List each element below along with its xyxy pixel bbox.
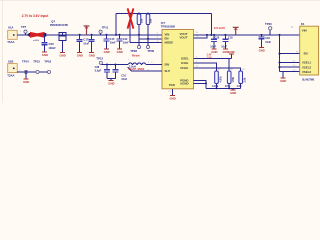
svg-text:10k: 10k xyxy=(150,18,153,23)
svg-text:C18: C18 xyxy=(215,37,220,40)
node cap C20 junction xyxy=(44,34,46,36)
connector X1A xyxy=(8,30,18,39)
wire input rail xyxy=(17,34,162,36)
wire ground rail xyxy=(17,71,49,73)
ground xyxy=(117,48,122,50)
svg-text:TP7: TP7 xyxy=(21,25,27,29)
wire L1 to SW pin xyxy=(146,64,162,66)
wire resistor bottom rail xyxy=(206,87,241,89)
svg-text:AGND: AGND xyxy=(180,81,189,85)
svg-text:VOUT: VOUT xyxy=(180,35,188,39)
svg-text:GND: GND xyxy=(280,79,286,83)
wire riser to top rail xyxy=(115,14,117,35)
svg-text:C16: C16 xyxy=(121,75,126,78)
svg-text:GND: GND xyxy=(170,96,176,100)
resistor R12 xyxy=(239,71,243,84)
svg-text:100nF: 100nF xyxy=(49,47,57,50)
wire join to ground xyxy=(107,79,115,81)
node junction VOUT xyxy=(206,34,208,36)
svg-text:VSEL1: VSEL1 xyxy=(302,61,312,65)
svg-text:TP18: TP18 xyxy=(44,59,51,63)
test point TP08 xyxy=(137,45,140,48)
capacitor C16 xyxy=(114,65,116,70)
svg-text:GND: GND xyxy=(117,50,123,54)
node junction C16 xyxy=(114,63,116,65)
capacitor C20 xyxy=(44,35,46,43)
svg-text:4.87k: 4.87k xyxy=(219,76,222,83)
node junction C38 xyxy=(106,63,108,65)
svg-text:10nF: 10nF xyxy=(121,78,127,81)
ground xyxy=(24,78,29,80)
svg-text:Q?: Q? xyxy=(51,20,55,24)
resistor R11 (not fitted, crossed out) xyxy=(129,14,131,43)
svg-text:T3AA: T3AA xyxy=(7,40,14,44)
wire OSEL net xyxy=(194,57,232,59)
svg-text:VIN: VIN xyxy=(302,29,307,33)
ground xyxy=(77,52,82,54)
wire EN net xyxy=(139,38,162,40)
svg-text:GND: GND xyxy=(42,53,48,57)
svg-text:ICHG: ICHG xyxy=(181,61,189,65)
svg-text:C17: C17 xyxy=(83,38,89,42)
sheet border lines xyxy=(0,0,320,2)
capacitor C23 xyxy=(261,35,263,37)
node junction to ground xyxy=(25,71,27,73)
svg-text:GND: GND xyxy=(223,50,229,54)
wire EN net xyxy=(280,53,300,55)
wire PAD to ground xyxy=(171,89,173,95)
ground (above wire) xyxy=(230,54,232,59)
ground xyxy=(42,51,47,53)
node R12 to VIN rail xyxy=(138,34,140,36)
svg-text:X1A: X1A xyxy=(8,25,13,29)
wire VSEL2 net xyxy=(280,66,300,68)
wire AGND net xyxy=(194,82,207,84)
wire gate of Q1 xyxy=(61,41,63,53)
ground xyxy=(223,48,228,50)
svg-text:SLP: SLP xyxy=(165,69,171,73)
wire SLP net with flag xyxy=(131,70,162,72)
connector X1B xyxy=(8,64,18,73)
node junction C23 xyxy=(260,34,262,36)
test point TP06 xyxy=(146,45,149,48)
node junction bus xyxy=(278,34,280,36)
resistor R13 xyxy=(146,14,150,25)
ground xyxy=(212,48,217,50)
wire top rail xyxy=(116,13,211,15)
node riser junction xyxy=(115,34,117,36)
node top rail corner xyxy=(210,14,212,35)
svg-text:TP14: TP14 xyxy=(22,59,29,63)
svg-text:NCAP_MIAS: NCAP_MIAS xyxy=(129,67,145,71)
svg-text:10nF: 10nF xyxy=(110,42,116,45)
node junction C19 xyxy=(224,34,226,36)
capacitor C21 xyxy=(91,35,93,40)
resistor R11 xyxy=(228,58,230,71)
svg-text:10nF: 10nF xyxy=(123,42,129,45)
svg-text:10nF: 10nF xyxy=(210,46,216,49)
ground xyxy=(89,52,94,54)
svg-text:EN: EN xyxy=(304,51,308,55)
svg-text:SW: SW xyxy=(165,63,170,67)
ground xyxy=(60,52,65,54)
svg-text:10nF: 10nF xyxy=(265,41,271,44)
capacitor C19 xyxy=(224,35,226,39)
svg-text:TP20: TP20 xyxy=(265,22,272,26)
svg-text:C23: C23 xyxy=(265,37,270,40)
svg-text:OSEL: OSEL xyxy=(181,57,189,61)
wire SW node xyxy=(102,64,129,66)
wire VCHG net xyxy=(194,68,241,71)
svg-text:TP06: TP06 xyxy=(147,49,154,53)
ground xyxy=(104,48,109,50)
svg-text:TP13: TP13 xyxy=(96,56,103,60)
node junction C18 xyxy=(213,34,215,36)
wire PGND net xyxy=(194,80,207,88)
node junctions on ground rail xyxy=(215,87,217,89)
svg-text:GND: GND xyxy=(89,54,95,58)
svg-text:VCHG: VCHG xyxy=(180,66,189,70)
svg-text:GND: GND xyxy=(259,49,265,53)
capacitor C15 xyxy=(106,35,108,39)
node junction AGND/PGND xyxy=(205,82,207,84)
svg-text:10nF: 10nF xyxy=(83,42,89,45)
svg-text:GND: GND xyxy=(228,50,234,54)
svg-text:C19: C19 xyxy=(228,37,233,40)
svg-text:GND: GND xyxy=(104,50,110,54)
svg-text:MODE: MODE xyxy=(165,40,174,44)
svg-text:10k: 10k xyxy=(141,18,144,23)
svg-text:2.7V to 3.6V input: 2.7V to 3.6V input xyxy=(22,14,50,18)
capacitor C22 xyxy=(119,35,121,39)
svg-text:3.0-3.6V: 3.0-3.6V xyxy=(214,26,225,30)
svg-text:VSEL3: VSEL3 xyxy=(302,70,312,74)
ground xyxy=(259,47,264,49)
svg-text:GND: GND xyxy=(108,82,114,86)
svg-text:SLV927M2: SLV927M2 xyxy=(302,78,315,81)
svg-text:C20: C20 xyxy=(49,42,55,46)
resistor R12 xyxy=(137,14,141,25)
fuse F1 xyxy=(29,33,31,37)
svg-text:GND: GND xyxy=(230,91,236,95)
svg-text:GND: GND xyxy=(77,54,83,58)
svg-text:PAD: PAD xyxy=(169,83,175,87)
svg-text:4.87k: 4.87k xyxy=(212,85,219,88)
node junction C17 xyxy=(79,34,81,36)
svg-text:GND: GND xyxy=(23,80,29,84)
node junction C15 xyxy=(105,34,107,36)
svg-text:2.0k: 2.0k xyxy=(237,85,242,88)
svg-text:TPS6105M: TPS6105M xyxy=(161,25,176,29)
capacitor C18 xyxy=(213,35,215,39)
test point TP brown xyxy=(84,26,90,35)
ground xyxy=(232,88,234,89)
svg-text:10uF: 10uF xyxy=(221,46,227,49)
wire VSEL1 net xyxy=(280,62,300,64)
wire enable bus xyxy=(279,35,281,72)
svg-text:X1B: X1B xyxy=(8,59,13,63)
svg-text:C38: C38 xyxy=(95,66,100,69)
node junction C22 xyxy=(118,34,120,36)
svg-text:VSEL2: VSEL2 xyxy=(302,65,312,69)
wire to ground xyxy=(282,72,284,78)
svg-text:K1: K1 xyxy=(301,22,305,26)
wire ICHG net xyxy=(194,63,217,71)
wire VOUT pin 10 xyxy=(194,34,300,36)
ground xyxy=(281,77,286,79)
capacitor C17 xyxy=(79,35,81,40)
svg-text:TP11: TP11 xyxy=(102,26,109,30)
svg-text:GND: GND xyxy=(211,50,217,54)
resistor R10 xyxy=(215,71,219,84)
svg-text:TP15: TP15 xyxy=(33,59,40,63)
svg-text:1.5V: 1.5V xyxy=(207,57,212,60)
svg-text:2.0k: 2.0k xyxy=(244,77,247,82)
capacitor C38 xyxy=(106,65,108,70)
svg-text:mf050: mf050 xyxy=(33,40,40,42)
svg-text:3.3pF: 3.3pF xyxy=(95,70,102,73)
wire VOUT pin 9 xyxy=(194,35,208,38)
wire MODE net xyxy=(130,41,162,43)
svg-text:Reset: Reset xyxy=(132,53,140,57)
svg-text:GND: GND xyxy=(60,54,66,58)
test point TP (small) xyxy=(233,27,239,35)
svg-text:178k: 178k xyxy=(232,76,235,82)
node junctions on top rail xyxy=(129,12,131,14)
svg-text:PMOS3415CPE: PMOS3415CPE xyxy=(50,24,68,27)
node junction C21 xyxy=(91,34,93,36)
svg-text:T3AA: T3AA xyxy=(7,73,14,77)
wire VSEL3 net xyxy=(280,71,300,73)
ground xyxy=(109,80,114,82)
